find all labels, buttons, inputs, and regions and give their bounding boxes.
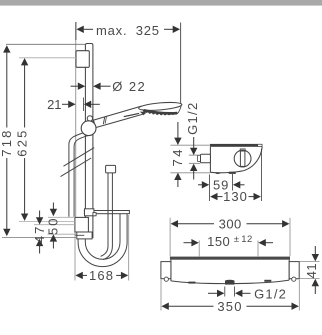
bottom stub left — [188, 282, 195, 284]
svg-text:50: 50 — [46, 217, 61, 235]
slider notch — [93, 213, 96, 216]
svg-text:G1/2: G1/2 — [185, 102, 200, 135]
tablet knob cap (left view) — [106, 165, 116, 173]
hose loop — [78, 214, 127, 267]
svg-text:±: ± — [234, 234, 239, 245]
dimension 21 — [62, 98, 100, 112]
front body bottom curve — [171, 280, 289, 284]
bar-bottom reference line — [2, 236, 77, 238]
svg-text:718: 718 — [0, 128, 14, 156]
upper wall bracket — [76, 51, 89, 68]
dimension 300 — [170, 218, 290, 256]
tablet shelf (left view) — [84, 211, 129, 214]
dimension G1/2 (outlet) — [208, 287, 251, 298]
centre outlet stub — [225, 280, 235, 285]
svg-text:12: 12 — [241, 234, 253, 245]
svg-text:21: 21 — [47, 97, 61, 112]
body bottom line — [210, 171, 243, 173]
right side cap — [289, 262, 299, 279]
shelf band end cap — [258, 144, 262, 146]
shower head disc — [138, 101, 182, 112]
svg-text:130: 130 — [223, 189, 248, 204]
hose strand inside loop — [101, 210, 113, 259]
slide bar — [85, 44, 93, 238]
dimension 47 — [36, 211, 43, 254]
dimension 59 — [198, 174, 245, 191]
left cap screw — [164, 277, 168, 281]
shelf band (side) — [210, 144, 262, 147]
svg-text:G1/2: G1/2 — [254, 286, 287, 301]
dimension 41 — [300, 246, 320, 294]
inlet connector — [201, 154, 211, 163]
left side cap — [161, 262, 171, 279]
spray face wedge — [140, 112, 145, 116]
svg-text:300: 300 — [219, 217, 242, 232]
bar slider block — [85, 209, 94, 216]
svg-text:168: 168 — [89, 268, 114, 283]
dimension 625 — [21, 58, 28, 221]
svg-text:625: 625 — [14, 128, 29, 156]
handle joint ring — [103, 117, 104, 124]
dimension 350 — [161, 280, 299, 311]
knob grip lines — [240, 151, 246, 167]
svg-text:350: 350 — [217, 299, 242, 314]
hand shower handle — [94, 106, 145, 128]
dimension 150 ±12 — [184, 239, 274, 256]
bar foot — [77, 232, 92, 239]
left reference extension lines — [19, 217, 76, 234]
hose cross line — [75, 234, 84, 236]
dimension 718 — [3, 45, 10, 236]
bar break slashes — [64, 148, 95, 167]
dimension Ø 22 — [71, 83, 111, 90]
dimension 625 extension line — [19, 57, 76, 59]
top gray header bar — [0, 0, 322, 6]
dimension 168 — [75, 215, 129, 281]
right cap screw — [292, 277, 296, 281]
spray face nozzle band — [144, 110, 177, 113]
bottom stub right — [264, 280, 271, 282]
body back edge — [209, 147, 211, 173]
svg-text:47: 47 — [32, 225, 47, 243]
svg-text:150: 150 — [207, 234, 230, 249]
outlet stubs (side) — [216, 172, 220, 174]
body front curve — [244, 147, 262, 171]
dimension 50 — [50, 203, 57, 249]
dimension 130 — [210, 149, 262, 201]
holder pivot knob — [87, 116, 92, 121]
hand shower hose upper run — [69, 133, 88, 217]
lower wall bracket — [75, 217, 89, 232]
spray face right edge — [177, 105, 181, 114]
handle dark seam — [124, 113, 140, 118]
svg-text:Ø 22: Ø 22 — [112, 79, 146, 94]
svg-text:74: 74 — [170, 147, 185, 166]
dimension max. 325 — [76, 22, 181, 104]
knob circle (side) — [234, 150, 251, 167]
svg-text:max.: max. — [96, 23, 127, 38]
svg-text:325: 325 — [136, 23, 160, 38]
front body top band — [170, 257, 290, 260]
dimension 74 — [170, 172, 210, 174]
svg-text:41: 41 — [304, 263, 319, 278]
wall line — [75, 22, 77, 217]
tablet knob stem (left view) — [108, 173, 112, 210]
holder clamp circle — [81, 121, 96, 136]
front body sides — [170, 260, 172, 281]
shelf top extension line — [170, 144, 209, 146]
dimension 718 extension line (bar top) — [6, 43, 85, 45]
knob top notch — [240, 149, 245, 151]
